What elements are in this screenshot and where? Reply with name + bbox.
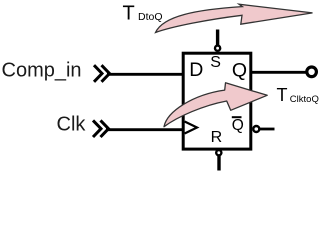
svg-text:ClktoQ: ClktoQ bbox=[290, 94, 319, 105]
svg-text:T: T bbox=[277, 85, 288, 105]
svg-text:D: D bbox=[189, 59, 203, 81]
arrow T_ClktoQ bbox=[164, 83, 267, 127]
wire Q output bbox=[249, 71, 307, 74]
node Q output terminal bbox=[307, 67, 317, 77]
svg-text:Comp_in: Comp_in bbox=[2, 60, 82, 82]
wire R pin stub bbox=[217, 156, 220, 171]
node R pin circle bbox=[216, 150, 221, 155]
input chevrons Clk bbox=[93, 120, 109, 137]
arrow T_DtoQ bbox=[156, 4, 313, 32]
wire Clk to clock input bbox=[106, 128, 184, 131]
wire Qbar stub bbox=[259, 128, 275, 131]
svg-text:Q: Q bbox=[232, 117, 244, 134]
svg-text:Clk: Clk bbox=[57, 114, 87, 136]
pin clock edge triangle bbox=[185, 122, 197, 134]
svg-text:Q: Q bbox=[232, 59, 247, 81]
input chevrons Comp_in bbox=[94, 65, 110, 82]
node S pin circle bbox=[215, 46, 220, 51]
pin label Qbar overline bbox=[232, 116, 242, 118]
svg-text:T: T bbox=[123, 3, 135, 25]
svg-text:R: R bbox=[211, 129, 223, 146]
wire Comp_in to D input bbox=[107, 73, 184, 76]
svg-text:DtoQ: DtoQ bbox=[138, 11, 163, 23]
node Qbar bubble bbox=[253, 126, 259, 132]
svg-text:S: S bbox=[210, 54, 221, 71]
flip-flop U1 body bbox=[183, 53, 251, 149]
wire S pin stub bbox=[216, 30, 219, 46]
